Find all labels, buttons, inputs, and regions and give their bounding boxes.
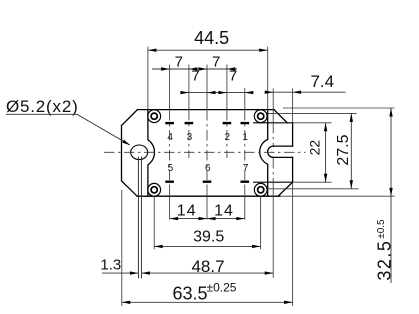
pin 5 pad xyxy=(165,181,174,183)
extension line pin2 xyxy=(226,65,228,111)
svg-text:3: 3 xyxy=(187,132,193,143)
pin 1 pad xyxy=(241,122,250,124)
case right edge with relief around slot xyxy=(260,110,268,196)
extension line pin1 xyxy=(244,88,246,110)
extension line 39.5 right xyxy=(260,197,262,249)
svg-text:1.3: 1.3 xyxy=(100,256,121,273)
svg-text:Ø5.2(x2): Ø5.2(x2) xyxy=(6,97,79,116)
extension line 44.5 left xyxy=(147,47,149,110)
right tab right edge upper xyxy=(292,123,294,146)
pin 3 centerline xyxy=(188,110,190,158)
extension line 14 pin7 xyxy=(244,185,246,220)
extension line pin6 column xyxy=(206,65,208,111)
svg-text:39.5: 39.5 xyxy=(193,229,224,246)
pin 3 pad xyxy=(185,122,194,124)
extension line 22 bottom xyxy=(293,181,332,183)
mounting slot rounded end xyxy=(268,146,274,157)
screw hole ring bottom-left xyxy=(148,183,161,196)
extension line 1.3 right xyxy=(140,157,142,279)
dimension 22 tab height xyxy=(307,123,328,182)
pin 6 centerline xyxy=(206,110,208,180)
pin 6 pad xyxy=(203,181,212,183)
extension line 14 pin5 xyxy=(169,185,171,220)
extension line 22 top xyxy=(293,122,332,124)
dimension 7 (pin4-pin3) and 7 (pin6-pin2) upper row xyxy=(152,53,237,70)
svg-text:5: 5 xyxy=(168,163,174,174)
dimension 39.5 xyxy=(154,229,260,249)
horizontal centerline xyxy=(104,151,306,153)
case left edge with relief around hole xyxy=(148,110,155,196)
svg-text:44.5: 44.5 xyxy=(194,28,229,48)
pin 7 pad xyxy=(241,181,250,183)
screw hole ring bottom-right xyxy=(254,183,267,196)
dimension 27.5 xyxy=(335,113,353,188)
extension line 1.3 left xyxy=(137,157,139,279)
extension line right edge bottom xyxy=(292,183,294,307)
extension line 27.5 bottom xyxy=(267,188,358,190)
dimension 63.5 +-0.25 overall width xyxy=(122,281,293,304)
svg-text:63.5: 63.5 xyxy=(172,283,207,303)
module left edge xyxy=(121,126,123,181)
extension line 14 pin6 xyxy=(206,185,208,220)
svg-text:48.7: 48.7 xyxy=(191,257,224,276)
extension line pin3 xyxy=(188,65,190,111)
module bottom edge xyxy=(137,195,280,197)
mounting slot bottom edge xyxy=(273,156,292,158)
pin 2 pad xyxy=(223,122,232,124)
dimension 14 14 bottom pins xyxy=(170,203,245,221)
extension line 32.5 top xyxy=(283,107,395,109)
svg-text:14: 14 xyxy=(214,203,234,220)
svg-text:4: 4 xyxy=(167,132,173,143)
extension line 39.5 left xyxy=(153,197,155,249)
pin 1/7 centerline xyxy=(244,110,246,180)
dimension 44.5 xyxy=(148,28,268,52)
svg-text:7.4: 7.4 xyxy=(310,72,334,91)
svg-text:1: 1 xyxy=(242,132,248,143)
svg-text:2: 2 xyxy=(225,132,231,143)
svg-text:27.5: 27.5 xyxy=(335,134,352,165)
svg-text:7: 7 xyxy=(212,53,220,70)
dimension 7.4 slot center to edge xyxy=(265,72,346,94)
extension line left edge bottom xyxy=(121,190,123,306)
extension line slot center xyxy=(272,89,274,278)
mounting hole Ø5.2 left xyxy=(131,145,148,160)
right tab top edge xyxy=(254,122,293,124)
extension line pin4 xyxy=(169,65,171,111)
svg-text:6: 6 xyxy=(205,163,211,174)
svg-text:22: 22 xyxy=(307,140,323,156)
extension line 32.5 bottom xyxy=(280,195,395,197)
slot center chain inside tab xyxy=(272,123,274,182)
extension line 44.5 right xyxy=(267,47,269,110)
module top-left chamfer xyxy=(122,110,138,126)
module top-right chamfer xyxy=(274,110,287,123)
screw hole ring top-right xyxy=(254,110,267,123)
svg-text:7: 7 xyxy=(175,53,183,70)
svg-text:±0.25: ±0.25 xyxy=(207,281,237,295)
pin 4/5 centerline xyxy=(169,110,171,180)
right tab bottom edge xyxy=(254,181,293,183)
svg-text:7: 7 xyxy=(243,163,249,174)
pin 2 centerline xyxy=(226,110,228,158)
svg-text:14: 14 xyxy=(177,203,197,220)
dimension 48.7 xyxy=(141,257,273,276)
dimension 7 (pin3-pin6) and 7 (pin2-pin1) lower row xyxy=(180,68,253,95)
module bottom-right chamfer xyxy=(278,182,293,196)
extension line 27.5 top xyxy=(267,112,356,114)
right tab right edge lower xyxy=(292,157,294,182)
screw hole ring top-left xyxy=(148,110,161,123)
extension line right edge top xyxy=(292,89,294,123)
dimension 32.5 +-0.5 overall height xyxy=(375,108,395,283)
module case top edge xyxy=(138,109,275,111)
mounting slot top edge xyxy=(273,145,292,147)
module bottom-left chamfer xyxy=(122,181,138,196)
svg-text:±0.5: ±0.5 xyxy=(376,219,387,239)
svg-text:7: 7 xyxy=(229,68,237,85)
svg-text:7: 7 xyxy=(191,68,199,85)
hole label Ø5.2(x2) with leader xyxy=(6,97,131,145)
svg-text:32.5: 32.5 xyxy=(375,240,395,281)
dimension 1.3 xyxy=(100,256,138,274)
pin 4 pad xyxy=(165,122,174,124)
